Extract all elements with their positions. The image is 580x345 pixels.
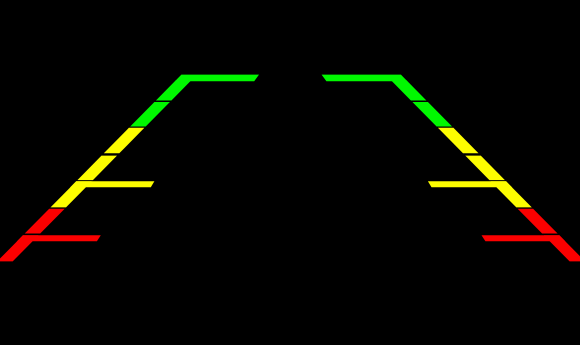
left guide: mid distance tick (yellow) [70,181,154,187]
left guide: top horizontal bar (green) [175,75,259,82]
left guide: dash 7 (red) [0,241,33,261]
right guide: dash 3 (yellow) [438,128,479,154]
right guide: dash 4 (yellow) [465,156,505,181]
right guide: dash 6 (red) [518,209,558,234]
left guide: bend corner flare (green) [172,75,181,93]
left guide: band through mid tick (yellow) [70,181,92,187]
right guide: dash 2 (green) [412,102,452,127]
left guide: dash 2 (green) [130,102,170,127]
left guide: dash 1 (green) [156,80,191,100]
left guide: bottom distance tick (red) [17,235,101,241]
left guide: dash 6 (red) [25,209,65,234]
right guide: dash 7 (red) [550,241,580,261]
right guide: mid distance tick (yellow) [428,181,512,187]
left guide: band through bottom tick (red) [17,235,39,241]
right guide: band through mid tick (yellow) [491,181,513,187]
right guide: top horizontal bar (green) [322,75,408,82]
left guide: dash 3 (yellow) [104,128,145,154]
right guide: dash 1 (green) [391,80,426,100]
right guide: bottom distance tick (red) [482,235,566,241]
right guide: band through bottom tick (red) [544,235,566,241]
left guide: dash 5 (yellow) [51,187,86,207]
right guide: bend corner flare (green) [401,75,410,93]
left guide: dash 4 (yellow) [77,156,117,181]
right guide: dash 5 (yellow) [496,187,531,207]
